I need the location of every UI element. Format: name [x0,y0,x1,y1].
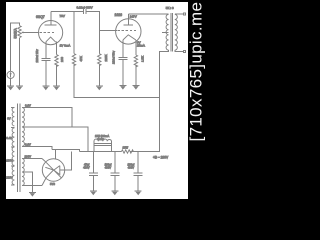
output transformer T2 5K:8 primary [166,14,169,50]
svg-text:220V: 220V [6,176,13,180]
cathode V2 [123,35,136,40]
wire HV center tap [22,172,32,192]
B+ rail left [79,151,121,153]
T2 core [171,13,173,52]
wire rectifier top [52,150,79,152]
wire input to pot top [11,23,20,72]
svg-text:47K: 47K [79,56,83,61]
T1 primary winding [12,108,14,185]
svg-text:choke: choke [97,137,105,141]
svg-text:78V: 78V [60,14,65,18]
svg-text:0.22uf 400V: 0.22uf 400V [77,5,93,9]
wire rectifier cathode stub [55,150,57,160]
svg-text:400V: 400V [128,166,134,170]
wire C3 to ground [122,60,124,86]
potentiometer VR1 500KA [18,26,24,38]
triode V1 6SQ7 [39,20,63,44]
svg-text:400V: 400V [83,166,89,170]
ground C4 [90,191,97,195]
resistor R3 47K [72,12,75,66]
wire HV bottom [22,178,46,186]
svg-text:220uf 25v: 220uf 25v [35,49,39,63]
plate V1 [45,12,57,25]
T1 heater winding 1 [22,108,24,127]
T1 heater winding 2 [22,127,24,146]
ground below pot [16,86,23,90]
ground C3 [119,85,126,89]
ground C1 [42,86,49,90]
wire cathode V1 to C1 [45,42,47,58]
triode V2 1626 [116,19,141,44]
resistor R5 1.5K [134,55,137,67]
capacitor C4 47uf 400V [89,152,98,192]
wire plate V2 to OPT [128,13,168,15]
svg-text:100V: 100V [6,159,13,163]
svg-text:247V: 247V [130,14,137,18]
wire grid V2 [99,30,136,32]
svg-text:220K: 220K [104,54,108,61]
B+ rail right [130,151,160,153]
resistor R6 10W [122,150,134,153]
wire R5 to ground [135,65,137,86]
svg-text:10W: 10W [123,145,129,149]
wire grid V1 [23,31,56,33]
terminal 8 ohm [184,13,186,15]
ground C5 [111,191,118,195]
svg-text:6SQ7: 6SQ7 [36,15,45,19]
wire OPT secondary top [175,13,184,15]
capacitor C3 220uf 50v [118,57,127,59]
svg-text:+B ~ 200V: +B ~ 200V [153,155,169,159]
wire cathode V1 to R2 [56,42,57,55]
svg-text:5K : 8: 5K : 8 [166,6,174,10]
svg-text:240: 240 [60,57,64,62]
svg-text:6.3V: 6.3V [25,103,31,107]
input jack J1 [7,71,14,78]
ground R2 [53,86,60,90]
power transformer T1 core [18,104,20,193]
ground center tap [29,192,36,196]
svg-text:1.5K: 1.5K [140,56,144,62]
wire cathode V2 to C3 [122,40,124,57]
wire cathode V2 to R5 [135,40,137,55]
capacitor C2 0.22uf 400V [83,9,85,14]
plate V2 [124,14,134,25]
capacitor C1 220uf 25v [41,58,50,60]
svg-text:500KA: 500KA [13,28,17,39]
terminal 0 ohm [184,51,186,53]
wire C1 to ground [45,60,47,86]
svg-text:1V 8mA: 1V 8mA [60,43,71,47]
resistor R2 240 [55,55,58,67]
rectifier U1 5Y3 [42,159,64,181]
ground below input [7,86,14,90]
capacitor C6 100uf 400V [134,152,143,192]
svg-text:400V: 400V [105,166,111,170]
resistor R4 220K [98,54,101,66]
wire input to ground [10,79,12,87]
watermark strip [188,0,207,204]
capacitor C5 100uf 400V [110,152,119,192]
wire R2 to ground [56,65,58,87]
primary tap T2 [162,31,169,33]
wire plate rail V1 [51,11,83,13]
wire R4 to ground [98,65,100,87]
wire OPT primary bottom to B+ [160,50,169,151]
wire R3 to B+ rail [74,65,160,98]
wire heater line 1 [22,108,72,128]
svg-text:220uf 50v: 220uf 50v [111,50,115,64]
svg-text:6.3V: 6.3V [25,143,31,147]
wire rectifier output [65,152,72,171]
wire heater line 3 [22,147,52,150]
svg-text:25mA: 25mA [137,44,145,48]
svg-text:1626: 1626 [115,13,123,17]
T1 HV winding [22,159,24,186]
wire OPT secondary bottom [175,50,184,51]
svg-text:0V: 0V [7,117,11,121]
svg-text:230V: 230V [25,154,32,158]
svg-text:6.4V: 6.4V [6,136,12,140]
cathode V1 [46,37,56,42]
ground R5 [132,85,139,89]
T1 primary taps [11,108,15,185]
svg-text:5Y3: 5Y3 [50,182,55,186]
ground C6 [135,191,142,195]
wire C2 to grid V2 [86,12,100,54]
wire heater line 2 [22,127,88,152]
choke L1 [94,139,112,152]
ground R4 [96,86,103,90]
wire pot bottom to ground [19,38,21,86]
T2 secondary [175,14,178,50]
wire HV top [22,159,46,163]
